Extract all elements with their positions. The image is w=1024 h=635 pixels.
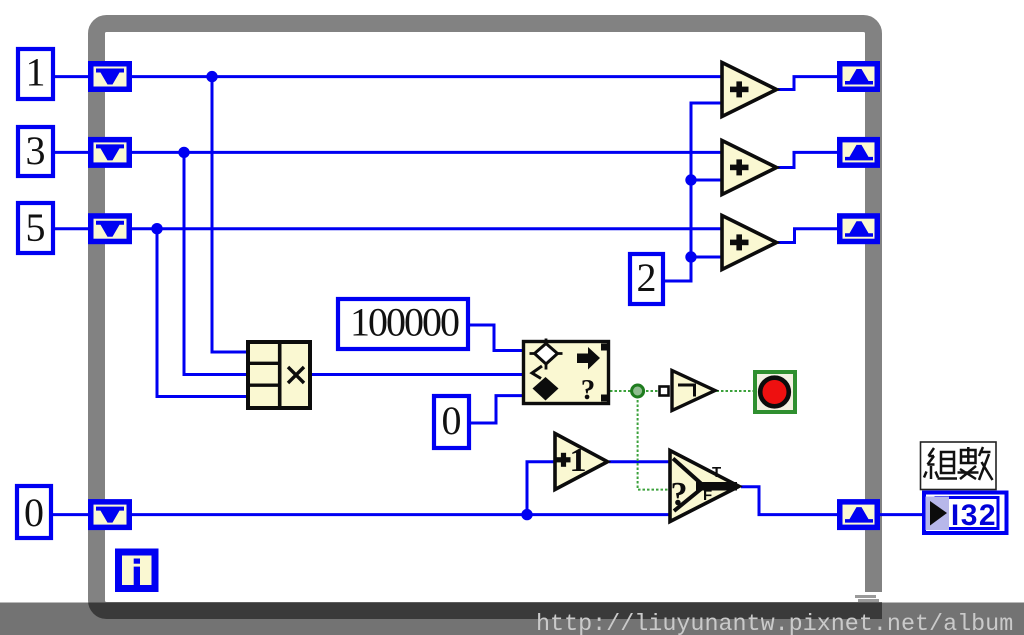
loop resize grip: [855, 595, 879, 602]
numeric constant 0 middle: [434, 396, 469, 448]
wire Add2 output to right shift register: [778, 152, 838, 167]
svg-text:1: 1: [570, 442, 587, 479]
svg-text:I32: I32: [951, 499, 997, 532]
wire 100000 constant to In Range upper input: [470, 325, 524, 351]
node junction bottom row: [521, 509, 532, 520]
node junction row1: [206, 71, 217, 82]
node junction feeder Add2: [685, 174, 696, 185]
numeric constant 2: [630, 254, 663, 304]
wire Add3 output to right shift register: [778, 229, 838, 243]
stop button boolean terminal: [755, 372, 795, 412]
svg-text:F: F: [703, 487, 712, 504]
green boolean wire In Range to Not gate: [610, 390, 755, 392]
shift register left row1: [88, 61, 132, 92]
svg-text:0: 0: [24, 490, 44, 535]
wire bottom row shift register to Select: [53, 513, 670, 516]
numeric constant 5: [18, 203, 53, 253]
svg-text:http://liuyunantw.pixnet.net/a: http://liuyunantw.pixnet.net/album: [536, 612, 1013, 635]
compound arithmetic multiply node: [248, 342, 310, 408]
numeric constant 3: [18, 127, 53, 176]
green wire junction: [632, 385, 644, 397]
shift register right bottom: [837, 499, 880, 530]
wire 0 constant to In Range lower input: [471, 396, 524, 423]
label 組數: [921, 442, 997, 490]
Select node: [670, 451, 739, 522]
wire row1 branch down to multiply top input: [212, 77, 248, 352]
shift register left row2: [88, 137, 132, 168]
wire Add1 output to right shift register: [778, 77, 838, 90]
increment +1 node: [555, 434, 608, 490]
shift register right row3: [837, 213, 880, 244]
wire increment output to Select true input: [609, 460, 670, 463]
numeric constant 100000: [338, 299, 468, 349]
Add function U3: [722, 216, 777, 270]
svg-text:0: 0: [442, 398, 462, 443]
Add function U2: [722, 141, 777, 195]
wire multiply output to In Range x input: [312, 373, 524, 376]
numeric constant 0 bottom left: [17, 486, 51, 538]
svg-text:T: T: [712, 464, 721, 481]
wire constant 2 feeder vertical: [665, 103, 722, 281]
Add function U1: [722, 63, 777, 117]
wire row1 from shift register to Add1: [55, 75, 722, 78]
svg-text:5: 5: [26, 205, 46, 250]
shift register left bottom: [88, 499, 132, 530]
svg-text:2: 2: [637, 255, 657, 300]
shift register right row1: [837, 61, 880, 92]
Not gate: [660, 371, 716, 411]
svg-text:100000: 100000: [350, 300, 459, 345]
In Range and Coerce node: [524, 339, 609, 407]
svg-text:1: 1: [26, 50, 46, 95]
wire row2 from shift register to Add2: [55, 151, 722, 154]
watermark overlay bar: [0, 603, 1024, 635]
svg-text:3: 3: [26, 128, 46, 173]
iteration terminal i: [115, 549, 159, 593]
shift register left row3: [88, 213, 132, 244]
numeric constant 1: [18, 49, 53, 99]
shift register right row2: [837, 137, 880, 168]
wire row3 branch down to multiply bottom input: [157, 229, 248, 397]
svg-text:?: ?: [581, 374, 596, 406]
I32 indicator terminal: [924, 493, 1007, 534]
green boolean wire branch down to Select selector: [638, 391, 670, 490]
node junction feeder Add3: [685, 251, 696, 262]
wire Select output to right shift register: [741, 487, 838, 515]
wire row3 from shift register to Add3: [55, 227, 722, 230]
wire bottom branch up to increment: [527, 462, 555, 515]
wire row2 branch down to multiply middle input: [184, 152, 248, 374]
node junction row3: [151, 223, 162, 234]
node junction row2: [178, 147, 189, 158]
wire right shift register to I32 indicator: [880, 513, 924, 516]
while loop border: [97, 24, 885, 620]
